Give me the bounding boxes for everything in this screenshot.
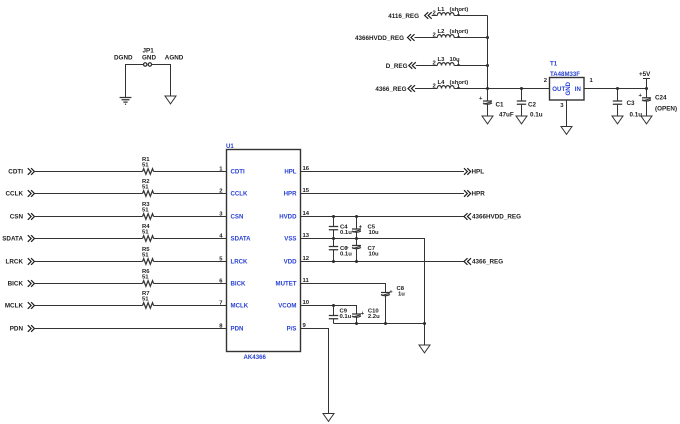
svg-text:4366HVDD_REG: 4366HVDD_REG bbox=[355, 35, 404, 42]
svg-text:47uF: 47uF bbox=[499, 112, 514, 119]
node DGND bbox=[114, 55, 133, 62]
wire pin 11 MUTET bbox=[301, 278, 386, 293]
svg-text:+: + bbox=[639, 93, 643, 99]
svg-text:BICK: BICK bbox=[8, 281, 24, 288]
wire pin 13 VSS bbox=[301, 233, 425, 345]
svg-text:VCOM: VCOM bbox=[278, 303, 296, 310]
svg-text:GND: GND bbox=[565, 81, 572, 95]
ground T1 pin3 bbox=[561, 127, 572, 135]
wire pin 12 VDD bbox=[301, 256, 465, 262]
node AGND bbox=[165, 55, 184, 62]
capacitor C9 0.1u bbox=[329, 306, 352, 324]
svg-text:4116_REG: 4116_REG bbox=[388, 13, 419, 20]
svg-text:D_REG: D_REG bbox=[386, 63, 408, 70]
capacitor C2 0.1u bbox=[517, 89, 543, 119]
resistor R2 51 bbox=[142, 179, 154, 196]
capacitor C7 10u bbox=[345, 239, 379, 262]
svg-text:HPR: HPR bbox=[284, 191, 297, 198]
svg-text:P/S: P/S bbox=[287, 326, 297, 333]
junction C10 bottom bbox=[355, 322, 358, 325]
port MCLK bbox=[5, 302, 35, 310]
capacitor C8 1u bbox=[381, 286, 405, 324]
port 4366_REG bbox=[375, 85, 415, 93]
svg-text:1: 1 bbox=[590, 78, 594, 84]
svg-text:MCLK: MCLK bbox=[5, 303, 24, 310]
resistor R6 51 bbox=[142, 269, 154, 286]
port HPL bbox=[464, 168, 484, 176]
wire CCLK to R2 bbox=[34, 193, 142, 195]
wire T1 pin3 to ground bbox=[560, 100, 566, 127]
wire D_REG to L3 bbox=[416, 61, 438, 67]
wire L3 to bus bbox=[454, 61, 487, 67]
capacitor C24 (OPEN) bbox=[639, 89, 678, 117]
port 4366HVDD_REG bbox=[464, 213, 521, 221]
wire pin 16 to HPL bbox=[301, 166, 465, 172]
junction C6 bottom bbox=[332, 260, 335, 263]
port 4366HVDD_REG bbox=[355, 34, 415, 42]
wire R3 to pin 3 bbox=[154, 212, 227, 218]
svg-text:LRCK: LRCK bbox=[231, 259, 249, 266]
junction C7 bottom bbox=[355, 260, 358, 263]
inductor L4 (short) bbox=[437, 80, 468, 89]
svg-text:PDN: PDN bbox=[231, 326, 244, 333]
resistor R3 51 bbox=[142, 202, 154, 219]
wire VCOM caps to VSS net bbox=[334, 323, 425, 325]
svg-text:4366_REG: 4366_REG bbox=[375, 86, 406, 93]
wire T1 IN to +5V bbox=[584, 88, 647, 90]
port BICK bbox=[8, 280, 35, 288]
svg-text:0.1u: 0.1u bbox=[630, 112, 643, 119]
svg-text:OUT: OUT bbox=[552, 86, 565, 93]
resistor R7 51 bbox=[142, 291, 154, 308]
svg-text:LRCK: LRCK bbox=[6, 259, 24, 266]
svg-text:CDTI: CDTI bbox=[8, 169, 23, 176]
svg-text:IN: IN bbox=[575, 86, 581, 93]
svg-text:4366HVDD_REG: 4366HVDD_REG bbox=[472, 214, 521, 221]
svg-text:+5V: +5V bbox=[639, 71, 651, 78]
wire SDATA to R4 bbox=[34, 238, 142, 240]
ground VSS net bbox=[419, 345, 430, 353]
svg-text:MCLK: MCLK bbox=[231, 303, 249, 310]
capacitor C1 47uF bbox=[479, 89, 514, 119]
svg-text:HPR: HPR bbox=[472, 191, 486, 198]
svg-text:2: 2 bbox=[544, 78, 548, 84]
wire BICK to R6 bbox=[34, 283, 142, 285]
capacitor C3 0.1u bbox=[613, 89, 642, 119]
junction C2 bbox=[520, 87, 523, 90]
wire R1 to pin 1 bbox=[154, 167, 227, 173]
svg-text:3: 3 bbox=[560, 103, 564, 109]
svg-text:0.1u: 0.1u bbox=[340, 314, 352, 320]
junction bus at L4 line bbox=[486, 87, 489, 90]
wire PDN to pin 8 bbox=[34, 324, 226, 330]
svg-text:MUTET: MUTET bbox=[276, 281, 297, 288]
wire pin 14 HVDD bbox=[301, 211, 465, 217]
junction C5 bottom bbox=[355, 237, 358, 240]
svg-text:PDN: PDN bbox=[10, 326, 24, 333]
svg-text:2.2u: 2.2u bbox=[368, 314, 380, 320]
capacitor C6 0.1u bbox=[329, 239, 352, 262]
wire pin 10 VCOM bbox=[301, 300, 357, 314]
svg-text:0.1u: 0.1u bbox=[530, 112, 543, 119]
wire LRCK to R5 bbox=[34, 261, 142, 263]
wire 4366HVDD_REG to L2 bbox=[415, 33, 438, 39]
junction C5 top bbox=[355, 215, 358, 218]
ground below C2 bbox=[516, 116, 527, 124]
junction C3 bbox=[616, 87, 619, 90]
port 4366_REG bbox=[464, 258, 503, 266]
junction +5V C24 bbox=[645, 87, 648, 90]
wire L2 to bus bbox=[454, 33, 487, 39]
wire pin 9 P/S bbox=[301, 323, 329, 414]
svg-text:1u: 1u bbox=[398, 292, 405, 298]
svg-text:CCLK: CCLK bbox=[6, 191, 24, 198]
svg-text:4366_REG: 4366_REG bbox=[472, 259, 503, 266]
ground below C24 bbox=[641, 116, 652, 124]
port HPR bbox=[464, 190, 485, 198]
port PDN bbox=[10, 325, 35, 333]
svg-text:GND: GND bbox=[142, 55, 156, 62]
wire CDTI to R1 bbox=[34, 171, 142, 173]
svg-text:CDTI: CDTI bbox=[231, 169, 246, 176]
wire 4116_REG to L1 bbox=[432, 11, 438, 17]
svg-text:BICK: BICK bbox=[231, 281, 246, 288]
svg-text:VDD: VDD bbox=[284, 259, 297, 266]
inductor L2 (short) bbox=[437, 29, 468, 38]
svg-text:10u: 10u bbox=[369, 251, 380, 257]
junction L3 bus bbox=[486, 64, 489, 67]
wire 4366_REG to L4 bbox=[415, 84, 437, 90]
wire JP1 pin2 to AGND bbox=[152, 65, 171, 97]
wire R6 to pin 6 bbox=[154, 279, 227, 285]
jumper JP1 bbox=[142, 48, 156, 67]
svg-text:SDATA: SDATA bbox=[2, 236, 23, 243]
IC U1 AK4366 bbox=[226, 143, 301, 361]
resistor R4 51 bbox=[142, 224, 154, 241]
svg-text:JP1: JP1 bbox=[143, 48, 155, 55]
junction VSS net bbox=[423, 322, 426, 325]
wire bus vertical bbox=[487, 16, 489, 89]
port LRCK bbox=[6, 258, 35, 266]
wire R5 to pin 5 bbox=[154, 257, 227, 263]
svg-text:10u: 10u bbox=[369, 230, 380, 236]
wire R4 to pin 4 bbox=[154, 234, 227, 240]
svg-text:0.1u: 0.1u bbox=[340, 251, 352, 257]
power +5V bbox=[639, 71, 651, 89]
port 4116_REG bbox=[388, 12, 432, 20]
svg-text:HPL: HPL bbox=[472, 169, 485, 176]
svg-text:(OPEN): (OPEN) bbox=[655, 106, 677, 113]
port SDATA bbox=[2, 235, 34, 243]
svg-text:+: + bbox=[479, 96, 483, 102]
svg-text:AK4366: AK4366 bbox=[244, 354, 267, 361]
wire CSN to R3 bbox=[34, 216, 142, 218]
ground below C3 bbox=[612, 116, 623, 124]
svg-text:AGND: AGND bbox=[165, 55, 184, 62]
capacitor C5 10u bbox=[352, 217, 379, 239]
svg-text:DGND: DGND bbox=[114, 55, 133, 62]
junction C9 top bbox=[332, 304, 335, 307]
ground DGND bbox=[120, 98, 132, 105]
svg-text:C24: C24 bbox=[655, 95, 667, 102]
svg-text:CCLK: CCLK bbox=[231, 191, 249, 198]
wire pin 15 to HPR bbox=[301, 188, 465, 194]
svg-text:CSN: CSN bbox=[10, 214, 24, 221]
ground AGND bbox=[165, 96, 176, 104]
inductor L1 (short) bbox=[437, 7, 468, 16]
capacitor C4 0.1u bbox=[329, 217, 352, 239]
inductor L3 10u bbox=[437, 57, 460, 66]
wire L1 to bus bbox=[454, 11, 487, 17]
port CCLK bbox=[6, 190, 35, 198]
svg-text:HPL: HPL bbox=[284, 169, 296, 176]
wire L4 to T1 OUT bbox=[454, 84, 549, 90]
svg-text:SDATA: SDATA bbox=[231, 236, 252, 243]
svg-text:+: + bbox=[361, 311, 365, 317]
svg-text:C2: C2 bbox=[528, 102, 537, 109]
capacitor C10 2.2u bbox=[352, 309, 380, 324]
svg-text:VSS: VSS bbox=[284, 236, 296, 243]
port CDTI bbox=[8, 168, 34, 176]
wire MCLK to R7 bbox=[34, 305, 142, 307]
svg-text:T1: T1 bbox=[550, 61, 558, 68]
svg-text:+: + bbox=[345, 246, 349, 252]
junction C4 bottom bbox=[332, 237, 335, 240]
ground P/S bbox=[323, 414, 334, 422]
port D_REG bbox=[386, 62, 416, 70]
ground below C1 bbox=[482, 116, 493, 124]
resistor R5 51 bbox=[142, 247, 154, 264]
wire R7 to pin 7 bbox=[154, 301, 227, 307]
svg-text:HVDD: HVDD bbox=[279, 214, 297, 221]
svg-text:0.1u: 0.1u bbox=[340, 230, 352, 236]
port CSN bbox=[10, 213, 35, 221]
wire R2 to pin 2 bbox=[154, 189, 227, 195]
junction C4 top bbox=[332, 215, 335, 218]
junction C8 bottom bbox=[384, 322, 387, 325]
wire JP1 pin1 to DGND bbox=[126, 65, 144, 98]
svg-text:CSN: CSN bbox=[231, 214, 244, 221]
svg-text:C3: C3 bbox=[627, 100, 636, 107]
resistor R1 51 bbox=[142, 157, 154, 174]
svg-text:C1: C1 bbox=[496, 102, 505, 109]
junction L2 bus bbox=[486, 36, 489, 39]
regulator T1 TA48M33F bbox=[544, 61, 594, 101]
